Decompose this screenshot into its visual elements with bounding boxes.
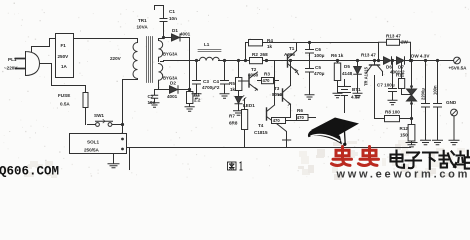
svg-text:100n: 100n (433, 85, 438, 95)
svg-text:220V: 220V (110, 56, 122, 61)
svg-text:150: 150 (400, 133, 408, 138)
svg-text:C2: C2 (148, 94, 154, 99)
svg-text:C7 100μ: C7 100μ (377, 83, 395, 88)
svg-text:R11: R11 (396, 73, 405, 78)
svg-text:470μ: 470μ (314, 71, 325, 76)
svg-text:2200μ: 2200μ (421, 88, 426, 100)
svg-text:R13 47: R13 47 (386, 34, 401, 39)
svg-text:1k: 1k (267, 44, 273, 49)
svg-text:T4: T4 (258, 123, 264, 128)
svg-text:T3: T3 (274, 86, 280, 91)
svg-text:DW 4.3V: DW 4.3V (411, 54, 430, 59)
svg-text:C1815: C1815 (254, 130, 268, 135)
svg-text:R7: R7 (229, 114, 235, 119)
svg-text:SOL1: SOL1 (87, 140, 99, 145)
svg-text:1A: 1A (61, 64, 68, 69)
svg-text:TR1: TR1 (138, 18, 147, 23)
svg-text:250V: 250V (58, 54, 70, 59)
svg-text:T1: T1 (289, 46, 295, 51)
svg-text:10VA: 10VA (137, 25, 149, 30)
svg-text:SW1: SW1 (94, 113, 104, 118)
svg-text:4.8V: 4.8V (351, 95, 361, 100)
svg-text:C4: C4 (213, 79, 219, 84)
svg-text:100μ: 100μ (314, 53, 325, 58)
svg-text:L1: L1 (204, 42, 210, 47)
svg-text:R13 47: R13 47 (361, 53, 376, 58)
svg-text:8050: 8050 (248, 73, 259, 78)
svg-text:C1: C1 (169, 9, 175, 14)
svg-text:8050: 8050 (272, 92, 283, 97)
svg-text:FUSE: FUSE (58, 93, 70, 98)
svg-text:470: 470 (297, 115, 305, 120)
svg-text:D1: D1 (172, 28, 178, 33)
svg-text:BYG3A: BYG3A (163, 52, 177, 57)
svg-text:PL1: PL1 (8, 57, 17, 62)
svg-text:R6: R6 (297, 108, 303, 113)
svg-text:F1: F1 (61, 43, 67, 48)
svg-text:A966: A966 (284, 52, 295, 57)
svg-text:2.2: 2.2 (194, 98, 201, 103)
svg-text:R12: R12 (400, 126, 409, 131)
svg-text:R4: R4 (267, 38, 273, 43)
svg-text:268: 268 (260, 52, 268, 57)
svg-text:D5: D5 (344, 64, 350, 69)
svg-text:4700μ*2: 4700μ*2 (202, 85, 220, 90)
svg-text:GND: GND (446, 100, 457, 105)
svg-text:BT1: BT1 (352, 87, 361, 92)
svg-text:www.eeworm.com: www.eeworm.com (336, 169, 470, 181)
svg-text:C3: C3 (203, 79, 209, 84)
svg-text:R1: R1 (194, 92, 200, 97)
svg-text:C5: C5 (315, 65, 321, 70)
svg-text:470: 470 (273, 118, 281, 123)
svg-text:+5V0.5A: +5V0.5A (449, 66, 468, 71)
svg-text:R8 100: R8 100 (385, 110, 400, 115)
svg-text:10n: 10n (169, 16, 177, 21)
svg-text:470: 470 (263, 78, 271, 83)
svg-text:TR A1015: TR A1015 (364, 66, 369, 86)
svg-text:R2: R2 (252, 52, 258, 57)
svg-text:T2: T2 (251, 67, 257, 72)
svg-text:1k: 1k (230, 87, 236, 92)
svg-text:R6 1k: R6 1k (331, 53, 344, 58)
svg-text:~220V: ~220V (4, 66, 18, 71)
svg-text:D2: D2 (170, 81, 176, 86)
svg-text:LED1: LED1 (243, 103, 255, 108)
svg-text:2W: 2W (401, 40, 409, 45)
svg-text:250/5A: 250/5A (84, 148, 99, 153)
svg-text:Q606.COM: Q606.COM (0, 165, 59, 179)
svg-text:6R8: 6R8 (229, 121, 238, 126)
svg-text:4001: 4001 (180, 32, 191, 37)
svg-text:4148: 4148 (342, 71, 353, 76)
svg-text:R5: R5 (229, 81, 235, 86)
svg-text:C6: C6 (315, 47, 321, 52)
svg-text:10n: 10n (148, 100, 156, 105)
svg-text:4001: 4001 (167, 94, 178, 99)
svg-text:0.5A: 0.5A (60, 102, 70, 107)
svg-text:R3: R3 (264, 72, 270, 77)
